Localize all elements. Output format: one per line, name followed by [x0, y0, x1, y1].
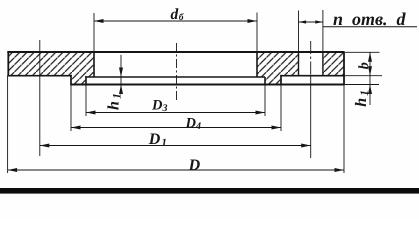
bolt hole centerline left — [39, 40, 41, 156]
hatched cut: left flange block — [8, 52, 94, 85]
lip outer left edge — [70, 75, 72, 85]
bolt hole centerline right / D1 extension — [310, 41, 312, 76]
svg-text:h1: h1 — [106, 93, 124, 110]
extension line d-bolt-circle left — [93, 13, 95, 52]
extension line b top — [345, 51, 380, 53]
axis centerline — [176, 43, 178, 101]
svg-text:h1: h1 — [353, 90, 371, 107]
bore right edge — [256, 52, 258, 77]
flange bottom face left — [7, 75, 72, 77]
recess floor line A — [85, 76, 265, 78]
bore left edge — [93, 52, 95, 77]
lip bottom line B — [70, 84, 345, 86]
flange left outer edge — [7, 51, 9, 75]
bolt hole right edge — [322, 52, 324, 76]
extension line D3 left — [85, 85, 87, 117]
extension line h1 right — [345, 84, 379, 86]
dimension b and h1 right line — [369, 52, 371, 105]
extension line d-bolt-circle right — [256, 13, 258, 53]
extension line b bottom — [345, 75, 382, 77]
svg-text:D4: D4 — [185, 115, 201, 132]
extension line D3 right — [264, 85, 266, 117]
dimension D3 line — [86, 112, 265, 114]
extension line D left — [7, 76, 9, 173]
flange top face — [7, 51, 344, 53]
dimension D line — [8, 169, 344, 171]
flange bottom face right — [280, 75, 345, 77]
dimension D1 line — [40, 145, 311, 147]
hatched cut: right flange block left of bolt hole — [257, 52, 299, 85]
dimension h1 left line — [120, 55, 122, 87]
label shelf n otv d — [323, 26, 417, 28]
extension line D right — [343, 85, 345, 174]
svg-text:b: b — [357, 62, 372, 69]
extension line hole-dim left — [298, 11, 300, 53]
svg-text:D3: D3 — [151, 98, 167, 115]
extension line D4 left — [70, 85, 72, 132]
bolt hole left edge — [298, 52, 300, 76]
dimension n otv d line — [299, 21, 323, 23]
svg-text:D1: D1 — [148, 131, 167, 149]
bottom page rule bar — [0, 188, 419, 194]
svg-text:dб: dб — [171, 6, 185, 23]
extension line hole-dim right — [322, 10, 324, 52]
hatched cut: right flange block right of bolt hole — [323, 52, 344, 76]
lip outer right edge — [280, 75, 282, 85]
lip inner left edge — [85, 76, 87, 85]
flange right outer edge — [343, 51, 345, 84]
svg-text:nотв.d: nотв.d — [333, 9, 407, 29]
svg-text:D: D — [188, 157, 201, 174]
dimension d-б line — [94, 20, 257, 22]
extension line D4 right — [280, 85, 282, 132]
lip inner right edge — [264, 77, 266, 85]
dimension D4 line — [71, 127, 281, 129]
